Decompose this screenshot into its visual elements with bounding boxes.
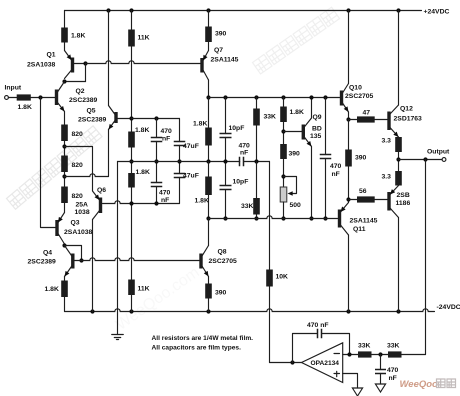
wire op-amp non-inverting input to ground [343,374,358,389]
wire Q8 emitter to 390 [208,277,210,284]
transistor Q10 2SC2705 (NPN) [340,84,349,113]
resistor 56 2SB1186 base [357,196,375,202]
wire upper 10pF to mid bus to lower 10pF [225,138,227,186]
svg-text:390: 390 [355,155,367,162]
wire 56 to 2SB1186 base [375,199,388,201]
resistor 1.8K Q9 branch [280,107,287,123]
junction y97 bus / 33K column [254,95,258,99]
junction bottom rail / Q6 collector [90,309,94,313]
wire lower 10pF to lower bus [225,191,227,219]
junction Q6 base line / 470nF [154,201,158,205]
transistor Q11 2SA1145 (PNP) [338,203,349,236]
wire +24V top rail [65,10,422,12]
capacitor 47uF lower [174,174,186,178]
junction y97 bus / Q9 collector [309,95,313,99]
svg-text:Q10: Q10 [349,85,362,92]
svg-text:390: 390 [289,151,301,158]
wire op-amp inverting input [343,354,358,356]
svg-text:47: 47 [363,110,371,117]
resistor 1.8K upper bias [128,132,135,148]
resistor 10K servo injection [266,270,273,287]
wire 820 ladder segment [64,141,66,156]
svg-text:33K: 33K [358,343,371,350]
wire Q3 collector stub [64,244,66,246]
transistor Q7 2SA1145 (PNP) [200,51,208,81]
wire mid bus down to ground (hops handled by crossing lines) [117,162,119,335]
wire 47 to Q12 base [375,119,388,121]
svg-text:10pF: 10pF [229,125,245,132]
junction upper bias bus / 470nF [154,116,158,120]
wire 11K down to 1.8K (crosses base bus via its hop) [131,47,133,132]
junction lower bus / 33K column [254,216,258,220]
junction Q1 base / base bus [83,61,87,65]
decorative faint watermark 3 [113,264,203,334]
svg-text:25A: 25A [76,201,89,208]
junction output node [396,157,400,161]
wire Q9 emitter to lower bus [311,147,313,219]
potentiometer 500 body [280,187,287,202]
junction lower bus / Q8 collector [206,216,210,220]
junction bottom rail / lower 11K [129,309,133,313]
svg-text:1.8K: 1.8K [135,127,149,134]
svg-text:Q11: Q11 [353,226,366,233]
svg-text:OPA2134: OPA2134 [311,360,340,367]
wire 2SB1186 collector to bottom rail [398,218,400,312]
junction mid bus / 33K column [254,159,258,163]
junction 820 ladder tap upper [62,144,66,148]
wire mid bus right corner down to 10K (hops lower bus) [269,162,271,270]
svg-text:Input: Input [5,85,22,92]
wire y97 to 1.8K [208,98,210,128]
wire upper ladder tap to Q6 emitter [65,147,93,192]
wire 33K to output feedback vertical [402,354,426,356]
svg-text:47uF: 47uF [183,143,199,150]
wire between 33K resistors [372,354,389,356]
wire Q2 emitter to 820 ladder [64,112,66,125]
wire lower 11K to bottom rail [131,295,133,312]
wire input resistor to Q2 base [31,97,55,99]
wire Q9 collector to y97 bus [311,98,313,119]
resistor 820 (ladder middle) [61,156,68,173]
wire Q11 collector to bottom rail [348,235,350,312]
svg-text:2SC2705: 2SC2705 [345,93,374,100]
junction lower bus / Q9 emitter [309,216,313,220]
transistor Q2 2SC2389 (NPN) [55,82,65,112]
wire Q12 collector to top rail [398,11,400,106]
svg-text:2SC2389: 2SC2389 [78,117,107,124]
junction lower bus / 10pF column [223,216,227,220]
junction top rail / Q5 collector line [106,8,110,12]
junction Q3/Q4 collectors [62,243,66,247]
ground arrow (servo divider) [375,384,385,392]
svg-text:390: 390 [215,31,227,38]
svg-text:1.8K: 1.8K [290,109,304,116]
svg-text:WeeQoo: WeeQoo [400,379,439,390]
wire 470nF to lower bus [325,159,327,219]
wire 10K down to op-amp output (hops bottom rail) [269,287,271,363]
ground arrow (op-amp + input) [352,388,362,396]
svg-text:1.8K: 1.8K [136,169,150,176]
capacitor 470nF lower [151,183,163,187]
ground symbol (earth) below bottom rail [112,335,124,340]
svg-text:2SA1038: 2SA1038 [27,61,56,68]
output terminal [442,158,446,162]
wire mid bus to lower 1.8K [208,162,210,177]
svg-text:2SC2705: 2SC2705 [209,258,238,265]
junction mid bus / 10pF column [223,159,227,163]
wire upper bus corner down to 47uF [179,119,181,142]
resistor 390 driver bias [345,150,352,167]
svg-text:10K: 10K [276,274,289,281]
svg-text:10pF: 10pF [233,179,249,186]
wire lower ladder tap to Q5 emitter (hops Q6 line) [65,174,109,177]
wire Q10 emitter down [348,112,350,120]
svg-text:135: 135 [310,133,322,140]
wire divider to lower 11K (crosses Q6 base / Q4 bus via their hops) [131,188,133,280]
svg-text:nF: nF [162,136,170,143]
wire -24V bottom rail (hops over ground / servo / feedback verticals) [65,309,435,312]
resistor 390 Q8 emitter [205,284,212,299]
junction Q9 base node [281,129,285,133]
wire lower 47uF to Q6 base line corner [179,178,181,204]
junction input node / Q3 base line [38,95,42,99]
svg-text:BD: BD [312,126,322,133]
resistor 11K upper [128,30,135,47]
wire mid bias bus left of series cap [118,161,240,163]
svg-text:Q1: Q1 [47,52,56,59]
svg-text:Q12: Q12 [400,106,413,113]
junction top rail / 11K chain [129,8,133,12]
svg-text:Q6: Q6 [97,187,106,194]
wire upper bias node bus [132,118,180,120]
junction top rail / Q10 collector [346,8,350,12]
svg-text:56: 56 [359,188,367,195]
svg-text:820: 820 [72,162,84,169]
resistor 11K lower [128,280,135,296]
svg-text:500: 500 [290,202,302,209]
wire upper 470nF to mid bus to lower 470nF [156,142,158,183]
pot wiper arrow [288,191,293,196]
transistor Q5 2SC2389 (NPN) [109,106,118,130]
wire lower bias bus (hops servo vertical) [209,216,338,219]
svg-text:47uF: 47uF [183,173,199,180]
svg-text:390: 390 [215,290,227,297]
resistor 33K servo feedback [388,351,402,357]
resistor 1.8K input series [17,94,31,100]
wire top rail to Q10 collector [348,11,350,84]
svg-text:+24VDC: +24VDC [424,9,450,16]
resistor 33K lower [253,198,260,215]
resistor 1.8K Q1 emitter load [61,28,68,43]
wire to 47 [349,119,358,121]
decorative watermark CJK glyphs [437,379,456,388]
wire input node down to Q3 base [41,98,56,228]
capacitor 10pF upper [220,134,232,138]
transistor Q12 2SD1763 (NPN) [387,105,398,137]
wire Q10 emitter to 390 [348,120,350,150]
transistor 2SB1186 (PNP output) [387,186,398,218]
wire upper 33K to mid bus [256,126,258,162]
wire divider to 470nF [380,355,382,370]
svg-text:nF: nF [161,197,169,204]
svg-text:33K: 33K [264,114,277,121]
wire 1.8K to mid bus [208,146,210,162]
wire Q9 base [284,131,302,133]
stub [398,136,400,138]
wire to upper 470nF [156,119,158,138]
wire 47uF to mid bus to lower 47uF [179,146,181,174]
junction Q5 base node [129,116,133,120]
resistor 390 Q9 branch [280,144,287,159]
svg-text:Q8: Q8 [218,249,227,256]
svg-text:Q2: Q2 [76,88,85,95]
svg-text:1.8K: 1.8K [193,121,207,128]
svg-text:11K: 11K [138,286,150,293]
junction Q4 base tie [79,258,83,262]
svg-text:470: 470 [387,367,399,374]
svg-text:820: 820 [72,131,84,138]
svg-text:1.8K: 1.8K [18,104,32,111]
junction top rail / 390 Q7 branch [206,8,210,12]
transistor Q3 2SA1038 (PNP) [55,213,64,245]
wire 820 ladder segment 2 [64,172,66,187]
resistor 1.8K lower bias [128,173,135,188]
wire Q4 base-collector tie loop [65,246,82,261]
capacitor 470nF upper [151,138,163,142]
capacitor 10pF lower [220,186,232,190]
svg-text:2SC2389: 2SC2389 [28,258,57,265]
svg-text:33K: 33K [387,343,400,350]
decorative faint watermark 2 [253,7,340,74]
svg-text:-24VDC: -24VDC [437,304,460,311]
capacitor 470nF servo divider [375,370,386,374]
svg-text:Q4: Q4 [43,250,52,257]
wire pot wiper loop [284,177,297,194]
wire feedback cap right leg [322,334,350,355]
wire y97 to upper 10pF [225,98,227,134]
wire top rail to 390 [208,11,210,27]
svg-text:2SC2389: 2SC2389 [69,97,98,104]
transistor Q8 2SC2705 (NPN) [199,246,208,277]
svg-text:2SA1145: 2SA1145 [211,57,239,64]
svg-text:Output: Output [427,149,450,156]
svg-text:1.8K: 1.8K [71,33,85,40]
resistor 33K servo input [358,351,372,357]
wire 3.3 to output node [398,152,400,171]
junction mid bus / divider [129,159,133,163]
junction Q11 emitter / 56 [346,197,350,201]
wire 1.8K to Q1 emitter [64,43,66,51]
junction lower bus / pot branch [281,216,285,220]
wire mid bias bus right of series cap [244,161,270,163]
svg-text:nF: nF [389,375,397,382]
svg-text:470: 470 [161,128,173,135]
wire lower 33K to lower bus [256,215,258,219]
wire feedback cap left leg [293,334,318,363]
svg-text:Q3: Q3 [71,220,80,227]
wire Q7 collector down [208,80,210,98]
wire top rail to 11K [131,11,133,30]
junction mid bus / 47uF column [177,159,181,163]
wire 1.8K to bottom rail [64,297,66,312]
wire 1.8K to 390 [283,122,285,144]
wire 390 to bottom rail [208,299,210,312]
junction bottom rail / 2SB1186 collector [396,309,400,313]
svg-text:2SA1145: 2SA1145 [350,218,378,225]
op-amp U1 OPA2134 (points left) [302,343,343,383]
svg-text:2SD1763: 2SD1763 [394,116,423,123]
svg-text:All resistors are 1/4W metal f: All resistors are 1/4W metal film. [152,335,254,342]
wire Q1 base-collector tie loop [65,64,86,82]
capacitor 470nF servo feedback [318,329,322,339]
wire y97 to 470nF [325,98,327,155]
wire lower 470nF to Q6 base line [156,187,158,204]
svg-text:11K: 11K [138,35,150,42]
wire Q4 emitter to 1.8K [64,277,66,281]
junction bottom rail / Q11 collector [346,309,350,313]
input terminal [5,96,9,100]
resistor 820 (ladder top) [61,125,68,142]
junction pot wiper tie [281,174,285,178]
resistor 33K upper [253,109,260,126]
svg-text:All capacitors are film types.: All capacitors are film types. [152,345,242,352]
svg-text:820: 820 [72,193,84,200]
wire mid bus to lower 33K [256,162,258,199]
wire Q5 base to divider [118,118,132,120]
junction y97 bus / Q9 branch [281,95,285,99]
svg-text:2SB: 2SB [397,192,410,199]
junction Q10 emitter / 47 / 390 [346,117,350,121]
wire top rail to 1.8K [64,11,66,28]
svg-text:Q7: Q7 [214,47,223,54]
svg-text:2SA1038: 2SA1038 [64,229,93,236]
junction Q1 collector / Q2 collector [62,79,66,83]
resistor 1.8K feedback lower [205,177,212,196]
wire 390 to Q7 emitter [208,42,210,51]
wire Q4 collector bus to Q8 base (hops three verticals) [75,258,200,261]
transistor Q1 2SA1038 (PNP) [65,51,75,79]
svg-text:Q5: Q5 [87,108,96,115]
junction mid bus / 470nF column [154,159,158,163]
svg-text:3.3: 3.3 [382,138,392,145]
wire 820 ladder to Q3 emitter [64,203,66,213]
wire Q6 base line right (hops ground vertical) [103,201,180,204]
wire op-amp output to servo vertical [270,362,302,364]
wire output node to terminal [399,159,443,161]
wire 470nF to ground arrow [380,374,382,385]
resistor 1.8K feedback upper [205,128,212,146]
svg-text:470: 470 [239,142,251,149]
junction mid bus / x208 [206,159,210,163]
junction 820 ladder tap lower [62,174,66,178]
capacitor 470nF (bias) [320,155,332,159]
resistor 820 (ladder bottom) [61,187,68,204]
junction y97 bus / 470nF column [323,95,327,99]
wire 390 to Q11 emitter [348,167,350,203]
junction output / feedback tap [423,157,427,161]
wire 1.8K to mid bus [131,148,133,174]
svg-text:1.8K: 1.8K [195,198,209,205]
svg-text:nF: nF [240,150,248,157]
wire base bus Q1 to Q7 (hops two verticals) [86,61,201,64]
wire Q6 collector to bottom rail [92,220,94,312]
svg-text:1186: 1186 [396,200,411,207]
junction Q6 base node / divider [129,201,133,205]
svg-text:470: 470 [159,190,171,197]
resistor 47 Q12 base [357,116,375,122]
capacitor 47uF upper [174,142,186,146]
wire 390 to pot [283,159,285,187]
junction bottom rail / Q8 emitter 390 [206,309,210,313]
junction 33K divider / 470nF [378,352,382,356]
junction lower bus / 470nF column [323,216,327,220]
wire Q1 base [74,63,85,65]
wire y97 bus Q7 collector to Q10 base [209,97,340,99]
svg-text:Q9: Q9 [313,114,322,121]
junction y97 bus / 10pF column [223,95,227,99]
svg-text:1038: 1038 [75,209,90,216]
svg-text:33K: 33K [241,203,254,210]
wire y97 to upper 33K [256,98,258,109]
wire vertical up to Q5 emitter [108,130,110,177]
transistor Q9 BD135 (NPN) [302,118,312,147]
wire y97 to 1.8K [283,98,285,107]
resistor 1.8K Q4 emitter [61,281,68,298]
transistor Q4 2SC2389 (NPN) [65,246,75,277]
svg-text:nF: nF [332,171,340,178]
junction Q7 collector / y97 bus [206,95,210,99]
svg-text:470: 470 [330,163,342,170]
wire lower 1.8K to lower bus [208,195,210,219]
wire to 56 [349,199,358,201]
wire output down to servo 33K (hops bottom rail) [425,160,427,355]
junction top rail / Q12 collector [396,8,400,12]
wire pot to lower bus [283,202,285,219]
resistor 3.3 lower output [395,171,402,186]
resistor 3.3 upper output [395,137,402,152]
wire input to series resistor [8,97,16,99]
svg-text:3.3: 3.3 [382,174,392,181]
decorative faint watermark (not a circuit element) [7,126,103,209]
transistor Q6 2SA1038 (PNP) [93,191,103,220]
svg-text:470 nF: 470 nF [307,322,329,329]
junction inverting input / feedback cap [347,352,351,356]
resistor 390 Q7 emitter [205,27,212,43]
svg-text:1.8K: 1.8K [45,286,59,293]
wire top rail down to Q5 collector [108,11,110,106]
capacitor 470nF series on mid bus [240,157,244,167]
wire Q8 collector up to lower bus [208,219,210,246]
junction op-amp output / feedback cap [290,360,294,364]
